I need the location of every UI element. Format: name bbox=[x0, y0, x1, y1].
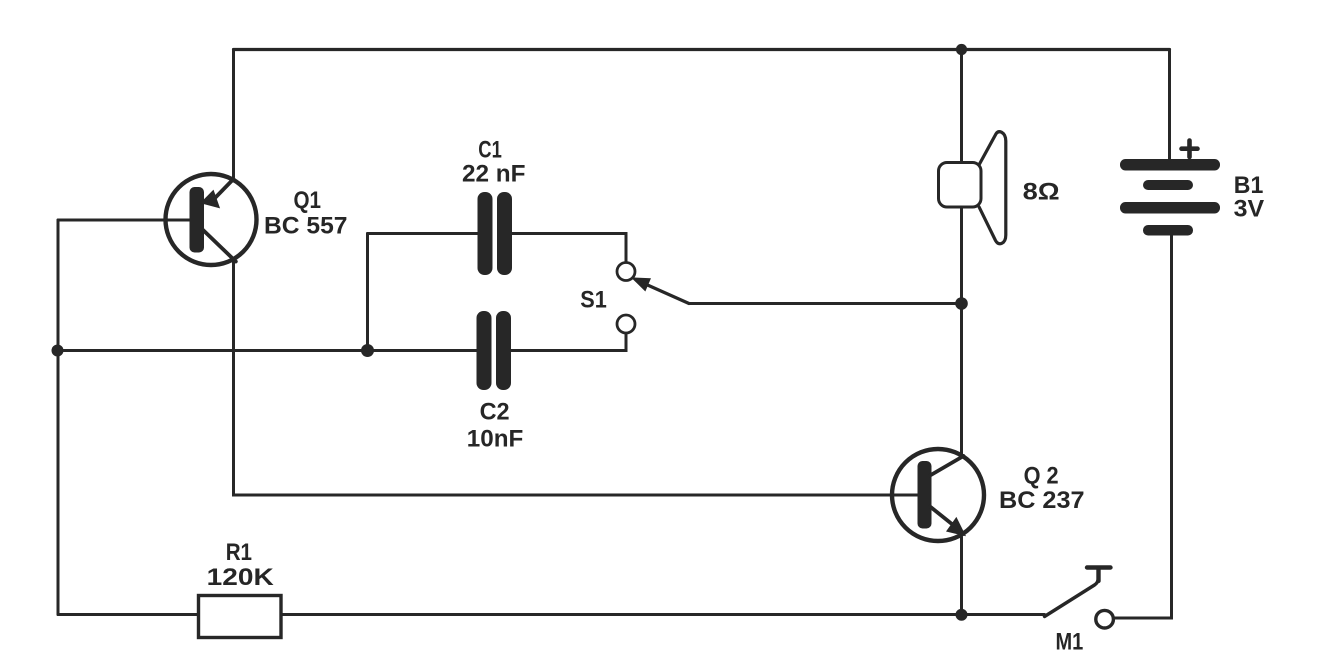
capacitor C2 (10nF) plates bbox=[477, 311, 512, 390]
wire: C2 right lead to S1 bottom contact bbox=[511, 335, 626, 351]
wire: Q1 emitter to top rail bbox=[232, 50, 235, 178]
wire: S1 arm horizontal run bbox=[689, 302, 962, 305]
wire: left vertical rail bbox=[57, 220, 60, 615]
switch S1 top contact bbox=[617, 263, 635, 281]
svg-text:C2: C2 bbox=[480, 399, 510, 426]
wire: Q1 base wire bbox=[58, 219, 192, 222]
wire: Q1 collector down and across to Q2 base bbox=[234, 259, 925, 495]
capacitor C1 (22nF) plates bbox=[478, 192, 513, 275]
resistor R1 body bbox=[199, 596, 282, 638]
battery B1 plates bbox=[1120, 159, 1220, 236]
wire: C2 row left segment bbox=[58, 349, 477, 352]
speaker SP (8 ohm) bbox=[939, 132, 1006, 244]
svg-text:8Ω: 8Ω bbox=[1023, 179, 1060, 206]
svg-text:R1: R1 bbox=[226, 539, 252, 566]
svg-text:C1: C1 bbox=[478, 136, 502, 163]
switch S1 arm with arrowhead bbox=[634, 279, 690, 304]
wire: bottom rail left of R1 bbox=[58, 613, 199, 616]
svg-text:120K: 120K bbox=[207, 564, 275, 591]
wire: speaker bottom lead to Q2 collector bbox=[960, 207, 963, 456]
svg-text:10nF: 10nF bbox=[467, 425, 524, 452]
svg-text:3V: 3V bbox=[1234, 195, 1265, 222]
node: speaker/S1-arm/Q2-collector junction bbox=[955, 297, 968, 310]
svg-text:BC 237: BC 237 bbox=[999, 487, 1085, 514]
wire: C1 left branch vertical bbox=[366, 234, 369, 351]
wire: top supply rail bbox=[234, 48, 1170, 51]
svg-text:S1: S1 bbox=[580, 286, 607, 313]
wire: M1 to battery negative lead bbox=[1115, 236, 1172, 619]
wire: C1 right lead to S1 top contact bbox=[512, 234, 627, 262]
transistor Q2 (BC237 NPN) bbox=[892, 449, 984, 541]
svg-text:22 nF: 22 nF bbox=[462, 160, 526, 187]
svg-text:Q1: Q1 bbox=[294, 187, 322, 214]
switch M1 fixed contact T bbox=[1087, 568, 1111, 582]
wire: speaker top lead bbox=[960, 50, 963, 164]
node: top rail / speaker junction bbox=[956, 44, 967, 55]
wire: battery positive lead bbox=[1168, 50, 1171, 160]
node: left rail / C2 row junction bbox=[52, 345, 64, 357]
wire: C1 left lead bbox=[368, 232, 479, 235]
svg-text:BC 557: BC 557 bbox=[264, 213, 348, 240]
transistor Q1 (BC557 PNP) bbox=[166, 174, 257, 265]
switch S1 bottom contact bbox=[617, 315, 635, 333]
node: Q2 emitter / bottom rail junction bbox=[956, 609, 968, 621]
battery plus sign bbox=[1182, 141, 1198, 158]
wire: bottom rail right of R1 bbox=[281, 613, 1045, 616]
switch M1 arm bbox=[1045, 572, 1099, 617]
svg-text:M1: M1 bbox=[1056, 629, 1084, 656]
node: C1 branch / C2 row junction bbox=[361, 344, 374, 357]
wire: Q2 emitter down bbox=[960, 537, 963, 615]
switch M1 contact ring bbox=[1096, 610, 1114, 628]
svg-text:Q 2: Q 2 bbox=[1024, 462, 1059, 489]
